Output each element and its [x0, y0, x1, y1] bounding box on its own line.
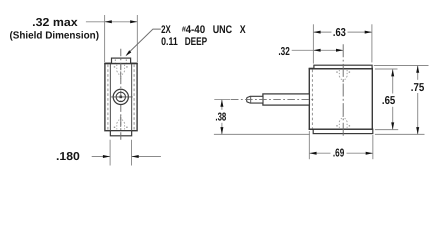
- connector barrel: [263, 94, 310, 105]
- svg-text:.75: .75: [411, 82, 425, 94]
- .69 arrow left: [309, 152, 316, 155]
- .32 max extension line left: [104, 15, 106, 62]
- body top edge heavy: [309, 68, 373, 70]
- pin chamfer line: [250, 97, 252, 103]
- hidden tapped hole bottom right view: [339, 116, 347, 128]
- .63 extension line right: [371, 24, 373, 62]
- screw hole center mark: [120, 96, 123, 99]
- .65 bottom extension line: [375, 129, 398, 131]
- svg-text:.69: .69: [333, 147, 344, 159]
- .32 arrow right: [336, 49, 343, 52]
- svg-text:0.11: 0.11: [161, 36, 178, 48]
- hidden tapped hole top right view: [339, 70, 347, 82]
- .65 dimension line: [392, 69, 394, 93]
- hidden shield line right (dashed): [133, 65, 135, 131]
- .38 arrow up: [220, 100, 223, 107]
- .75 arrow up: [416, 66, 419, 73]
- side screw hole inner circle: [116, 92, 125, 101]
- top lid plate: [314, 65, 372, 68]
- .32 max arrow left: [105, 20, 112, 23]
- vertical centerline right view: [342, 44, 344, 137]
- .38 arrow down: [220, 127, 223, 134]
- .180 arrow left (points right): [103, 155, 110, 158]
- .180 extension line left: [109, 140, 111, 166]
- .69 extension line left: [308, 131, 310, 159]
- .65 arrow down: [391, 122, 394, 129]
- .38 top extension line: [214, 99, 230, 101]
- hidden shield line inside left edge: [311, 70, 313, 129]
- inner wall line right: [131, 64, 133, 131]
- inner wall line left: [109, 64, 111, 131]
- connector centerline: [231, 99, 314, 101]
- body outline left view: [105, 63, 137, 130]
- top cap: [112, 58, 131, 63]
- svg-text:.65: .65: [382, 95, 396, 107]
- svg-text:.32 max: .32 max: [32, 17, 78, 29]
- cap hidden hole dashes: [114, 59, 116, 62]
- .32 max dimension line: [86, 21, 137, 23]
- .63 extension line left: [312, 24, 314, 63]
- svg-text:4-40: 4-40: [186, 24, 206, 36]
- .75 bottom extension line: [375, 133, 425, 135]
- leader note line: [127, 29, 161, 54]
- svg-text:X: X: [240, 24, 246, 36]
- .32 max extension line right: [136, 15, 138, 62]
- hidden hole top centerline dash: [120, 65, 122, 79]
- .63 arrow left: [313, 31, 320, 34]
- body outline right view: [309, 69, 372, 130]
- .63 arrow right: [365, 31, 372, 34]
- .32 max arrow right: [130, 20, 137, 23]
- .32 dimension line (right view): [292, 49, 344, 51]
- .69 extension line right: [372, 135, 374, 159]
- body top edge heavy line: [104, 62, 137, 64]
- side screw hole outer circle: [113, 89, 128, 104]
- hidden tapped hole bottom (dotted): [117, 117, 125, 129]
- .75 arrow down: [416, 127, 419, 134]
- svg-text:.63: .63: [333, 27, 346, 39]
- .180 leader line left: [92, 156, 110, 158]
- horizontal crosshair through hole: [111, 96, 132, 98]
- .65 arrow up: [391, 69, 394, 76]
- svg-text:.180: .180: [56, 151, 80, 163]
- hidden tapped hole top (dotted): [117, 65, 125, 77]
- leader arrowhead: [126, 50, 132, 56]
- .32 arrow left: [313, 49, 320, 52]
- .65 top extension line: [375, 68, 398, 70]
- hidden shield line left (dashed): [107, 65, 109, 131]
- vertical centerline left view: [120, 49, 122, 140]
- .180 arrow right (points left): [132, 155, 139, 158]
- .63 dimension line: [313, 31, 331, 33]
- svg-text:DEEP: DEEP: [185, 36, 207, 48]
- svg-text:(Shield Dimension): (Shield Dimension): [10, 30, 100, 41]
- bottom mounting base: [110, 131, 131, 136]
- svg-text:2X: 2X: [161, 24, 171, 36]
- .75 top extension line: [374, 65, 429, 67]
- .180 leader line right: [132, 156, 161, 158]
- svg-text:UNC: UNC: [213, 24, 232, 36]
- .38 dimension line: [221, 100, 223, 110]
- connector pin tip: [247, 96, 263, 103]
- bottom base plate: [313, 129, 373, 133]
- .180 extension line right: [131, 140, 133, 166]
- svg-text:.38: .38: [215, 111, 226, 123]
- .75 dimension line: [417, 66, 419, 80]
- .69 arrow right: [366, 152, 373, 155]
- .38 bottom extension line: [214, 133, 310, 135]
- svg-text:.32: .32: [278, 46, 289, 58]
- .69 dimension line: [309, 152, 330, 154]
- hidden hole bottom centerline dash: [120, 115, 122, 129]
